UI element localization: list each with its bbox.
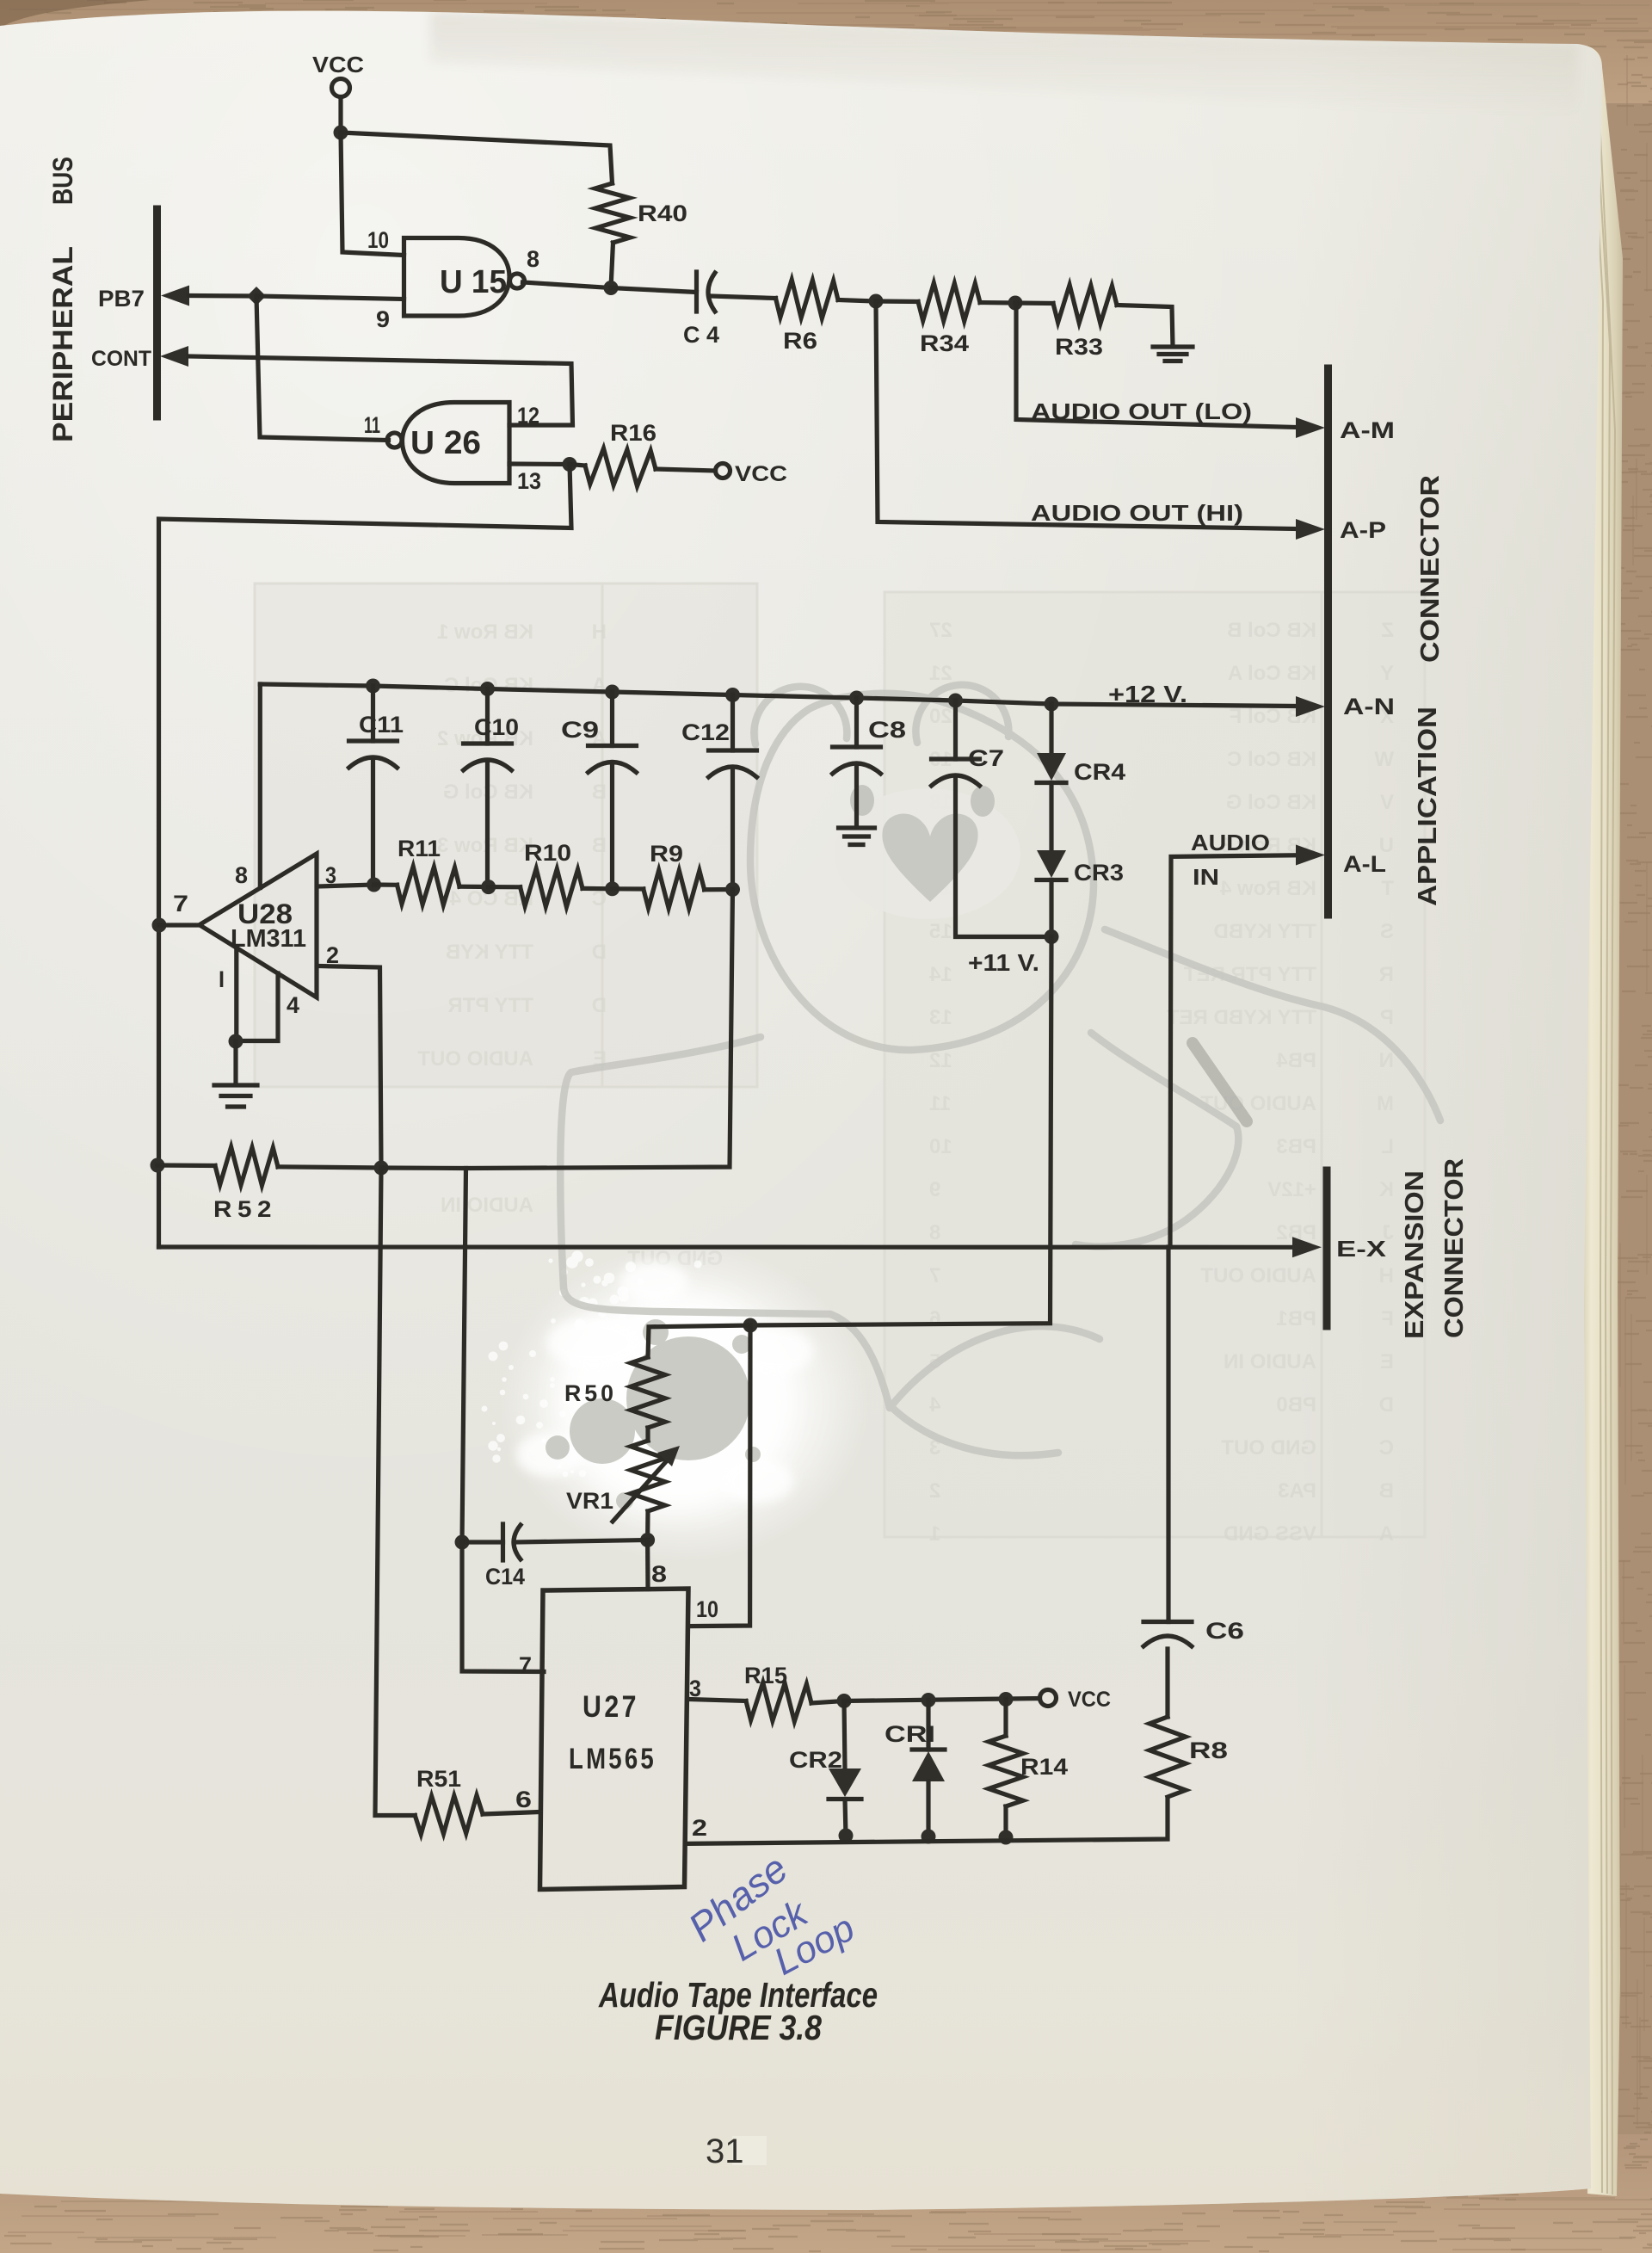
svg-text:EXPANSION: EXPANSION <box>1399 1170 1429 1339</box>
svg-text:C 4: C 4 <box>683 322 719 348</box>
svg-text:C12: C12 <box>681 719 730 745</box>
resistor R34 <box>876 283 1015 321</box>
svg-text:H: H <box>1379 1264 1394 1287</box>
svg-text:8: 8 <box>527 246 539 272</box>
svg-text:K: K <box>1378 1178 1394 1201</box>
svg-text:2: 2 <box>692 1815 707 1841</box>
svg-text:PA3: PA3 <box>1278 1479 1316 1503</box>
svg-text:VCC: VCC <box>312 52 364 77</box>
ground at C8 <box>839 828 875 845</box>
node R14 top junction <box>999 1692 1014 1707</box>
svg-text:Y: Y <box>1380 662 1394 685</box>
capacitor C8 <box>833 698 881 827</box>
svg-text:6: 6 <box>929 1307 940 1330</box>
wire U28 pin 3 <box>318 885 374 886</box>
svg-text:R14: R14 <box>1020 1754 1068 1780</box>
svg-text:Z: Z <box>1381 619 1394 642</box>
wire to U27 pin 7 <box>462 1542 544 1672</box>
wire VCC rail bottom <box>844 1699 1040 1701</box>
node U28 pin1-4 junction <box>229 1034 243 1049</box>
diode CR2 <box>829 1701 861 1836</box>
node R52 left junction <box>151 1158 165 1173</box>
svg-text:I: I <box>219 966 225 992</box>
svg-text:21: 21 <box>929 662 952 685</box>
capacitor C6 <box>1143 1247 1192 1646</box>
svg-text:W: W <box>1374 748 1394 771</box>
capacitor C12 <box>709 695 757 890</box>
svg-text:CR4: CR4 <box>1074 759 1125 785</box>
svg-text:U 15: U 15 <box>440 264 507 300</box>
resistor R11 <box>374 867 488 905</box>
peripheral bus bar <box>153 209 161 417</box>
svg-text:C6: C6 <box>1205 1618 1244 1644</box>
svg-text:8: 8 <box>235 862 248 888</box>
svg-text:R52: R52 <box>213 1196 277 1222</box>
capacitor C9 <box>589 692 637 889</box>
resistor R8 <box>1150 1649 1186 1797</box>
svg-text:FIGURE 3.8: FIGURE 3.8 <box>655 2008 822 2047</box>
nand-gate U26 <box>387 403 509 484</box>
svg-text:B: B <box>592 834 607 857</box>
ghost bleed-through layer <box>255 583 1425 1546</box>
svg-text:PB0: PB0 <box>1276 1393 1316 1417</box>
node R15-CR2 junction <box>837 1694 852 1708</box>
svg-text:P: P <box>1380 1006 1394 1029</box>
svg-text:11: 11 <box>364 412 380 438</box>
svg-text:C9: C9 <box>561 717 599 743</box>
svg-text:VR1: VR1 <box>566 1488 613 1514</box>
svg-text:2: 2 <box>326 942 339 968</box>
svg-text:3: 3 <box>689 1676 701 1701</box>
svg-text:C7: C7 <box>968 745 1004 771</box>
wire +12V bus <box>260 684 1325 717</box>
wire U15 output pin 8 <box>523 282 612 288</box>
svg-text:TTY KYB: TTY KYB <box>446 941 533 964</box>
svg-text:PB7: PB7 <box>98 286 145 312</box>
wire U28 pin 2 <box>318 966 381 1169</box>
svg-text:10: 10 <box>367 227 389 253</box>
svg-text:LM311: LM311 <box>231 925 306 953</box>
node PB7 junction <box>247 287 266 306</box>
capacitor C4 <box>697 272 776 312</box>
svg-text:CONNECTOR: CONNECTOR <box>1439 1158 1469 1338</box>
page number 31 <box>732 2136 767 2165</box>
power VCC terminal <box>332 79 350 126</box>
svg-text:PB4: PB4 <box>1276 1049 1316 1072</box>
node C10 tap <box>480 682 495 696</box>
node VCC junction <box>334 126 348 140</box>
svg-text:VCC: VCC <box>735 462 787 486</box>
wire U27 pin 10 <box>688 1325 750 1626</box>
svg-text:IN: IN <box>1193 864 1219 890</box>
diode CR4 <box>1037 704 1066 850</box>
wire pin13 node down-left to long left rail <box>159 465 572 1248</box>
power VCC bottom <box>1040 1690 1057 1707</box>
svg-text:S: S <box>1380 920 1394 943</box>
svg-text:GND OUT: GND OUT <box>1221 1436 1316 1460</box>
svg-text:10: 10 <box>696 1596 718 1622</box>
svg-text:B: B <box>592 781 607 804</box>
ground at R33 <box>1153 347 1193 361</box>
wire U27 pin 2 rail <box>686 1799 1168 1843</box>
resistor R51 <box>415 1795 540 1834</box>
svg-text:PB3: PB3 <box>1276 1135 1316 1158</box>
svg-text:M: M <box>1377 1092 1394 1115</box>
svg-text:7: 7 <box>929 1264 940 1287</box>
svg-text:R8: R8 <box>1189 1738 1228 1763</box>
node CR2 bottom <box>839 1829 854 1843</box>
svg-text:E: E <box>1380 1350 1394 1373</box>
node C14 left junction <box>455 1535 470 1550</box>
resistor R33 <box>1015 285 1117 324</box>
wire U27 pin 3 <box>688 1700 746 1701</box>
svg-text:CONT: CONT <box>91 347 151 371</box>
svg-text:27: 27 <box>929 619 952 642</box>
node U15 out junction <box>604 281 619 295</box>
svg-text:AUDIO IN: AUDIO IN <box>441 1194 533 1217</box>
svg-text:31: 31 <box>706 2133 744 2170</box>
resistor R52 <box>157 1147 381 1186</box>
svg-text:13: 13 <box>517 468 541 494</box>
node CR1 top junction <box>922 1693 936 1707</box>
svg-text:H: H <box>592 620 607 644</box>
capacitor C10 <box>464 689 512 887</box>
svg-text:R11: R11 <box>398 836 441 861</box>
svg-text:R: R <box>1379 963 1394 986</box>
wire AUDIO IN line <box>1170 845 1325 1248</box>
wire PB7 to U15 pin 9 <box>256 296 404 299</box>
svg-text:10: 10 <box>929 1135 952 1158</box>
svg-text:+12 V.: +12 V. <box>1108 681 1187 707</box>
svg-text:9: 9 <box>929 1178 940 1201</box>
svg-text:CRI: CRI <box>885 1721 935 1747</box>
svg-text:9: 9 <box>376 306 390 332</box>
nand-gate U15 <box>404 238 525 317</box>
svg-text:R6: R6 <box>783 328 817 354</box>
svg-text:AUDIO OUT (LO): AUDIO OUT (LO) <box>1031 398 1252 424</box>
svg-text:E-X: E-X <box>1336 1236 1387 1262</box>
svg-text:PB1: PB1 <box>1276 1307 1316 1330</box>
svg-text:APPLICATION: APPLICATION <box>1412 707 1442 906</box>
wire PB7 line <box>161 286 256 306</box>
node C11 tap <box>366 679 380 694</box>
node R6-R34 junction <box>869 294 884 309</box>
resistor R50 <box>631 1357 665 1441</box>
resistor R15 <box>746 1682 844 1721</box>
capacitor C14 <box>462 1524 648 1560</box>
svg-text:R40: R40 <box>638 201 687 226</box>
svg-text:R10: R10 <box>524 840 571 866</box>
resistor R40 <box>595 183 631 288</box>
schematic text <box>47 52 1469 1841</box>
svg-text:AUDIO OUT: AUDIO OUT <box>1200 1264 1316 1287</box>
wire U27 pin 8 <box>645 1540 650 1589</box>
wire to U28 ground <box>233 1041 237 1083</box>
wire R33 to ground <box>1117 306 1173 347</box>
op-amp U28 <box>200 854 317 997</box>
node VR1-C14 junction <box>640 1533 655 1547</box>
svg-text:KB Col G: KB Col G <box>1226 791 1316 814</box>
svg-text:20: 20 <box>929 705 952 728</box>
node R10-R9 junction <box>605 881 619 896</box>
svg-text:D: D <box>592 941 607 964</box>
svg-text:KB Col B: KB Col B <box>1227 619 1316 642</box>
svg-text:15: 15 <box>929 920 952 943</box>
svg-text:R50: R50 <box>564 1380 617 1406</box>
svg-text:AUDIO OUT (HI): AUDIO OUT (HI) <box>1031 500 1243 526</box>
svg-text:F: F <box>1381 1307 1394 1330</box>
node R11-R10 junction <box>481 880 496 894</box>
wire CONT line <box>160 346 573 425</box>
node C9 tap <box>605 685 619 700</box>
wire +11V down to R50 rail <box>750 937 1051 1326</box>
resistor R16 <box>570 448 716 486</box>
svg-text:AUDIO: AUDIO <box>1191 830 1270 855</box>
svg-text:A-L: A-L <box>1343 851 1386 877</box>
capacitor C7 <box>932 701 1052 937</box>
wire rail to R50 top <box>648 1325 750 1357</box>
svg-text:PERIPHERAL: PERIPHERAL <box>47 246 78 442</box>
svg-text:4: 4 <box>928 1393 940 1417</box>
svg-text:7: 7 <box>519 1652 532 1678</box>
wire junction to C4 <box>611 288 697 293</box>
wire R6 to R34 node <box>838 300 876 302</box>
svg-text:AUDIO IN: AUDIO IN <box>1224 1350 1316 1373</box>
svg-text:A-N: A-N <box>1343 694 1395 719</box>
svg-text:KB Row 4: KB Row 4 <box>1219 877 1316 900</box>
wire U28 pin 4 <box>236 973 278 1041</box>
wire AUDIO OUT (LO) line <box>1016 303 1325 438</box>
resistor R14 <box>989 1700 1023 1838</box>
capacitor C11 <box>349 686 398 885</box>
svg-text:R51: R51 <box>416 1766 461 1792</box>
svg-text:7: 7 <box>173 891 188 917</box>
expansion connector bar <box>1323 1170 1331 1326</box>
node C12 tap <box>725 688 740 702</box>
svg-text:N: N <box>1379 1049 1394 1072</box>
wire U28 pin2 rail down to R51 <box>375 1168 415 1816</box>
svg-text:U 26: U 26 <box>410 425 481 461</box>
potentiometer VR1 <box>613 1441 680 1540</box>
resistor R9 <box>613 870 733 908</box>
svg-text:2: 2 <box>929 1479 940 1503</box>
node +11V junction <box>1045 929 1059 944</box>
node R52-pin2 junction <box>374 1161 389 1176</box>
resistor R6 <box>776 280 839 318</box>
svg-text:12: 12 <box>929 1049 952 1072</box>
svg-text:8: 8 <box>929 1221 940 1244</box>
wire PB7 junction down to U26 pin 11 <box>256 296 389 441</box>
watermarks <box>482 685 1441 1562</box>
book fore-edge page stack <box>1577 44 1623 2196</box>
svg-text:AUDIO OUT: AUDIO OUT <box>417 1047 533 1071</box>
wire R52 node to C14 drop <box>381 1168 466 1542</box>
node R14 bottom <box>999 1830 1014 1845</box>
svg-text:KB Row 1: KB Row 1 <box>437 620 533 644</box>
svg-text:D: D <box>1379 1393 1394 1417</box>
wire C12 node down to C14 rail <box>466 890 733 1169</box>
wire AUDIO OUT (HI) line <box>876 301 1325 540</box>
ground at U28 <box>214 1085 257 1107</box>
svg-text:3: 3 <box>325 862 336 888</box>
svg-text:L: L <box>1381 1135 1394 1158</box>
svg-text:R15: R15 <box>744 1663 787 1688</box>
svg-text:13: 13 <box>929 1006 952 1029</box>
node R34-R33 junction <box>1008 296 1023 311</box>
resistor R10 <box>489 868 613 907</box>
svg-text:CR2: CR2 <box>789 1747 842 1773</box>
wire U26 pin 13 to node <box>509 461 570 466</box>
wire VCC junction down to U15 pin 10 <box>341 133 404 256</box>
svg-text:R33: R33 <box>1055 334 1103 360</box>
svg-text:+12V: +12V <box>1267 1178 1316 1201</box>
svg-text:TTY KYBD RET: TTY KYBD RET <box>1166 1006 1316 1029</box>
node U28 pin 7 <box>152 918 167 933</box>
node CR1 bottom <box>922 1830 936 1844</box>
wire VCC junction to R40 top <box>341 133 613 183</box>
svg-text:KB Col C: KB Col C <box>1227 748 1316 771</box>
svg-text:C11: C11 <box>359 712 404 738</box>
svg-text:CR3: CR3 <box>1074 860 1124 886</box>
application connector bar <box>1324 368 1332 915</box>
power VCC at R16 <box>716 464 730 478</box>
svg-text:C: C <box>1379 1436 1394 1460</box>
node R50 rail junction <box>743 1318 758 1333</box>
svg-text:A-M: A-M <box>1340 417 1395 443</box>
svg-text:A-P: A-P <box>1340 517 1386 543</box>
diode CR3 <box>1037 850 1066 937</box>
node CR4 tap <box>1045 697 1059 712</box>
diode CR1 <box>912 1701 945 1837</box>
node C8 tap <box>849 691 864 706</box>
svg-text:R9: R9 <box>650 841 683 867</box>
svg-text:T: T <box>1381 877 1394 900</box>
node U26 pin13 junction <box>563 457 577 472</box>
svg-text:B: B <box>1379 1479 1394 1503</box>
svg-text:BUS: BUS <box>47 157 78 205</box>
svg-text:V: V <box>1380 791 1394 814</box>
svg-text:8: 8 <box>651 1561 667 1587</box>
node R11 left <box>367 878 381 892</box>
svg-text:14: 14 <box>928 963 952 986</box>
svg-text:VCC: VCC <box>1068 1688 1111 1712</box>
svg-text:TTY PTR: TTY PTR <box>447 994 533 1017</box>
node C7 tap <box>948 694 963 708</box>
svg-text:D: D <box>592 994 607 1017</box>
wire U28 pin 7 <box>159 923 200 927</box>
svg-text:4: 4 <box>287 992 299 1018</box>
svg-text:KB Col A: KB Col A <box>1228 662 1316 685</box>
svg-text:C8: C8 <box>868 717 906 743</box>
svg-text:11: 11 <box>929 1092 951 1115</box>
svg-text:6: 6 <box>515 1787 532 1812</box>
handwriting + caption <box>598 1846 878 2170</box>
wire U28 pin 8 <box>258 684 262 888</box>
wire U28 pin 1 <box>234 947 238 1041</box>
node R9-C12 junction <box>725 882 740 897</box>
svg-text:U27: U27 <box>583 1690 639 1724</box>
svg-text:CONNECTOR: CONNECTOR <box>1415 475 1445 663</box>
svg-text:C10: C10 <box>474 714 519 740</box>
svg-text:A: A <box>1379 1522 1394 1546</box>
svg-text:+11 V.: +11 V. <box>968 949 1039 976</box>
svg-text:R16: R16 <box>610 420 656 446</box>
svg-text:VSS GND: VSS GND <box>1224 1522 1316 1546</box>
svg-text:TTY KYBD: TTY KYBD <box>1213 920 1316 943</box>
ic U27 LM565 box <box>540 1589 689 1890</box>
svg-text:R34: R34 <box>920 330 969 356</box>
wire expansion E-X line <box>159 1237 1322 1257</box>
svg-text:1: 1 <box>929 1522 940 1546</box>
svg-text:LM565: LM565 <box>569 1743 656 1775</box>
svg-text:C14: C14 <box>485 1564 525 1589</box>
svg-text:12: 12 <box>517 403 539 429</box>
